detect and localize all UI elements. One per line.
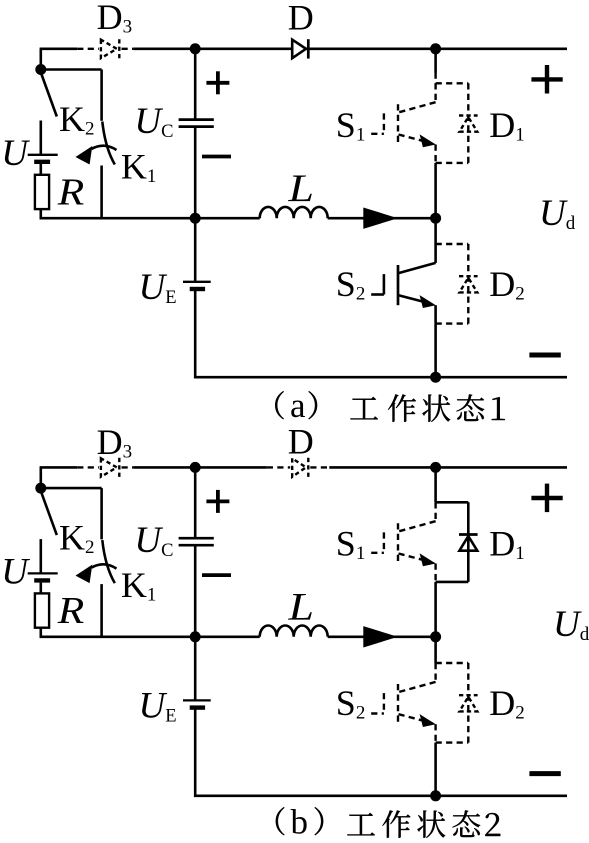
wire (b) top rail dashed lead-out of D3 — [122, 466, 134, 468]
node (b) UC bottom junction — [190, 631, 201, 642]
diode D (conducting, solid) triangle — [292, 40, 306, 59]
wire top rail dashed lead-out of D3 — [122, 48, 134, 50]
IGBT S1 (off, dashed) (a) emitter arrowhead — [420, 134, 436, 147]
(a) battery UE lower lead — [194, 291, 197, 379]
diode D3 (off, dashed) triangle — [101, 40, 117, 59]
IGBT S1 (off, dashed) (a) diode triangle — [459, 117, 477, 132]
(b) wire top-left corner drop — [39, 467, 42, 488]
terminal minus (a) — [529, 353, 560, 358]
wire top rail left segment — [40, 47, 78, 50]
wire (b) top rail left segment — [40, 466, 78, 469]
IGBT S1 (off, dashed) with conducting diode D1 (b) gate lead — [371, 552, 384, 554]
IGBT S1 (off, dashed) with conducting diode D1 (b) gate bar — [383, 532, 385, 552]
(a) wire bottom-left rail — [40, 217, 196, 220]
IGBT S2 (conducting, solid) with diode D2 (a) freewheel loop bottom wire — [436, 322, 469, 324]
IGBT S2 (off, dashed) with diode D2 (b) gate lead — [371, 712, 384, 714]
wire (a) S1 emitter to midpoint — [434, 163, 437, 218]
IGBT S2 (off, dashed) with diode D2 (b) emitter lead — [434, 724, 436, 742]
(b) polarity minus of UC — [202, 573, 231, 577]
IGBT S1 (off, dashed) (a) collector diagonal — [399, 102, 436, 112]
(b) polarity plus of UC vertical — [216, 490, 220, 513]
(b) wire to K1 branch — [41, 487, 102, 490]
terminal plus (b) horizontal — [531, 496, 562, 500]
IGBT S2 (off, dashed) with diode D2 (b) collector diagonal — [399, 682, 436, 692]
(b) battery UE short plate — [190, 705, 205, 709]
terminal plus (a) vertical — [545, 65, 549, 94]
wire (b) S2 emitter to bottom rail — [434, 743, 437, 796]
svg-text:L: L — [287, 167, 314, 210]
(a) wire K1 branch vertical — [100, 70, 103, 121]
IGBT S1 (off, dashed) with conducting diode D1 (b) freewheel loop right wire — [467, 502, 470, 582]
IGBT S1 (off, dashed) (a) emitter lead — [434, 145, 436, 163]
(a) battery U short plate — [34, 160, 50, 164]
IGBT S2 (off, dashed) with diode D2 (b) gate bar — [383, 693, 385, 713]
IGBT S2 (conducting, solid) with diode D2 (a) emitter arrowhead — [420, 295, 436, 308]
(b) battery UE long plate — [183, 699, 211, 701]
node (a) UC bottom junction — [190, 213, 201, 224]
node (b) top right collector junction — [430, 462, 441, 473]
node (a) top right collector junction — [430, 43, 441, 54]
(a) switch K1 lower contact — [100, 166, 103, 220]
(a) polarity plus of UC vertical — [216, 71, 220, 94]
IGBT S1 (off, dashed) (a) gate bar — [383, 113, 385, 133]
IGBT S1 (off, dashed) with conducting diode D1 (b) diode cathode bar — [459, 533, 478, 536]
IGBT S2 (off, dashed) with diode D2 (b) diode cathode bar — [459, 694, 478, 696]
caption (b) char tai — [452, 810, 480, 837]
wire (b) midpoint to S2 loop — [434, 637, 437, 663]
IGBT S1 (off, dashed) (a) gate lead — [371, 133, 384, 135]
(b) capacitor UC plate bottom — [179, 544, 214, 547]
(b) battery UE upper lead — [194, 637, 197, 700]
IGBT S2 (off, dashed) with diode D2 (b) freewheel loop top wire — [436, 662, 469, 664]
diode D (b) (off, dashed) triangle — [292, 458, 306, 477]
(a) wire top-left corner drop — [39, 49, 42, 70]
circuit (b) working state 2 — [1, 422, 589, 802]
IGBT S1 (off, dashed) (a) collector lead — [434, 83, 436, 102]
node (a) bottom emitter junction — [430, 372, 441, 383]
wire (b) collector stub from top node — [434, 467, 437, 502]
IGBT S2 (conducting, solid) with diode D2 (a) diode triangle — [459, 278, 477, 293]
caption (a) char tai — [456, 394, 484, 421]
wire (b) top rail right segment — [329, 466, 567, 469]
(a) switch K2 blade — [41, 74, 57, 117]
IGBT S2 (off, dashed) with diode D2 (b) emitter diagonal — [399, 714, 425, 721]
svg-text:D: D — [288, 422, 314, 462]
caption (a) digit 1 — [492, 397, 505, 420]
caption (a) — [275, 386, 505, 425]
(a) resistor R body — [35, 175, 49, 209]
IGBT S1 (off, dashed) with conducting diode D1 (b) channel bar — [397, 523, 399, 563]
node (b) midpoint junction — [430, 631, 441, 642]
(b) switch K1 lower contact — [100, 584, 103, 638]
(a) battery UE short plate — [190, 287, 205, 291]
(b) capacitor UC top lead — [194, 467, 197, 538]
IGBT S2 (conducting, solid) with diode D2 (a) diode cathode bar — [459, 275, 478, 277]
wire (a) bottom rail — [194, 376, 567, 379]
inductor L (b) left wire — [195, 635, 260, 638]
(a) switch K1 closing arrow tail — [92, 146, 117, 150]
node (a) top of UC — [190, 43, 201, 54]
IGBT S1 (off, dashed) with conducting diode D1 (b) emitter arrowhead — [420, 553, 436, 566]
IGBT S2 (off, dashed) with diode D2 (b) channel bar — [397, 684, 399, 724]
wire (b) bottom rail — [194, 794, 567, 797]
IGBT S2 (conducting, solid) with diode D2 (a) gate bar — [383, 274, 386, 294]
svg-text:D: D — [288, 0, 314, 38]
IGBT S1 (off, dashed) with conducting diode D1 (b) emitter lead — [434, 564, 436, 582]
(b) battery UE lower lead — [194, 709, 197, 797]
diode D3 (off, dashed) cathode bar — [118, 39, 120, 58]
diode D3 (b) (off, dashed) triangle — [101, 458, 117, 477]
wire (b) S1 emitter to midpoint — [434, 582, 437, 637]
wire (a) S2 emitter to bottom rail — [434, 324, 437, 378]
IGBT S1 (off, dashed) with conducting diode D1 (b) collector lead — [434, 502, 436, 521]
(b) resistor R body — [35, 593, 49, 627]
inductor L (a) right wire — [328, 217, 436, 220]
(b) node left junction — [35, 483, 46, 494]
wire (b) top rail middle segment — [133, 466, 266, 469]
caption (b) digit 2 — [485, 813, 500, 836]
IGBT S1 (off, dashed) with conducting diode D1 (b) freewheel loop top wire — [436, 501, 469, 504]
IGBT S2 (conducting, solid) with diode D2 (a) channel bar — [397, 265, 400, 305]
wire (b) top rail dashed lead-in of D3 — [77, 466, 99, 468]
(a) capacitor UC plate top — [179, 118, 214, 121]
svg-text:R: R — [57, 590, 85, 632]
terminal plus (b) vertical — [545, 484, 549, 512]
diode D3 (b) (off, dashed) cathode bar — [118, 458, 120, 477]
(a) node left junction — [35, 64, 46, 75]
(a) switch K2 contact — [39, 121, 42, 155]
caption (a) char zhuang — [422, 395, 450, 422]
wire (b) top rail dashed lead-in of D — [267, 466, 290, 468]
inductor L (b) right wire — [328, 635, 436, 638]
wire (a) midpoint to S2 collector — [434, 218, 437, 244]
caption (b) char gong — [347, 813, 375, 836]
(b) battery U short plate — [34, 578, 50, 582]
caption (b) fullwidth left paren — [276, 807, 285, 835]
IGBT S2 (conducting, solid) with diode D2 (a) collector lead — [434, 244, 437, 263]
(b) battery U lower lead — [39, 583, 42, 594]
(a) battery UE long plate — [183, 281, 211, 283]
(b) capacitor UC plate top — [179, 537, 214, 540]
circuit (a) working state 1 — [1, 0, 575, 383]
(a) battery U lower lead — [39, 164, 42, 175]
IGBT S1 (off, dashed) with conducting diode D1 (b) emitter diagonal — [399, 554, 425, 561]
(a) capacitor UC top lead — [194, 49, 197, 120]
wire (b) top rail dashed lead-out of D — [310, 466, 329, 468]
IGBT S2 (off, dashed) with diode D2 (b) freewheel loop bottom wire — [436, 741, 469, 743]
IGBT S2 (off, dashed) with diode D2 (b) diode triangle — [459, 697, 477, 712]
(b) switch K1 blade — [102, 540, 115, 583]
IGBT S1 (off, dashed) with conducting diode D1 (b) diode triangle — [459, 536, 477, 551]
caption (a) fullwidth right paren — [308, 391, 317, 419]
inductor L (a) current arrow — [363, 208, 398, 229]
wire top rail dashed lead-in of D3 — [77, 48, 99, 50]
IGBT S1 (off, dashed) (a) freewheel loop top wire — [436, 82, 469, 84]
(a) switch K1 blade — [102, 122, 115, 165]
svg-text:U: U — [1, 552, 30, 593]
svg-text:a: a — [290, 386, 306, 425]
(b) switch K2 blade — [41, 492, 57, 535]
terminal minus (b) — [529, 771, 560, 776]
(a) switch K1 closing arrowhead — [76, 146, 93, 165]
caption (a) fullwidth left paren — [275, 391, 284, 419]
wire top rail middle segment — [133, 47, 292, 50]
(b) switch K2 contact — [39, 539, 42, 573]
IGBT S2 (off, dashed) with diode D2 (b) emitter arrowhead — [420, 714, 436, 727]
caption (a) char gong — [350, 397, 378, 420]
IGBT S1 (off, dashed) (a) channel bar — [397, 104, 399, 144]
caption (b) char zuo — [382, 810, 410, 837]
IGBT S2 (conducting, solid) with diode D2 (a) freewheel loop right wire — [467, 244, 469, 324]
(b) switch K1 closing arrowhead — [76, 565, 93, 584]
IGBT S1 (off, dashed) (a) freewheel loop bottom wire — [436, 162, 469, 164]
(b) switch K1 closing arrow tail — [92, 564, 117, 568]
(b) resistor R lower lead — [39, 628, 42, 638]
(a) capacitor UC plate bottom — [179, 125, 214, 128]
node (b) top of UC — [190, 462, 201, 473]
inductor L (b) current arrow — [363, 626, 398, 647]
(b) polarity plus of UC horizontal — [206, 499, 229, 503]
wire top rail right segment — [306, 47, 567, 50]
wire (a) dashed collector approach — [434, 73, 436, 84]
node (a) midpoint junction — [430, 213, 441, 224]
svg-text:b: b — [291, 803, 309, 842]
IGBT S2 (off, dashed) with diode D2 (b) collector lead — [434, 663, 436, 682]
svg-text:R: R — [57, 171, 85, 213]
(b) capacitor UC bottom lead — [194, 545, 197, 637]
(a) capacitor UC bottom lead — [194, 127, 197, 219]
IGBT S1 (off, dashed) with conducting diode D1 (b) collector diagonal — [399, 521, 436, 531]
svg-text:U: U — [1, 133, 30, 174]
(b) battery U long plate — [28, 572, 58, 574]
IGBT S2 (conducting, solid) with diode D2 (a) freewheel loop top wire — [436, 243, 469, 245]
IGBT S2 (conducting, solid) with diode D2 (a) emitter lead — [434, 305, 437, 323]
caption (a) char zuo — [388, 394, 416, 421]
(a) resistor R lower lead — [39, 209, 42, 219]
IGBT S1 (off, dashed) with conducting diode D1 (b) freewheel loop bottom wire — [436, 581, 469, 584]
caption (b) char zhuang — [417, 811, 445, 838]
caption (b) — [276, 803, 500, 842]
IGBT S1 (off, dashed) (a) diode cathode bar — [459, 114, 478, 116]
inductor L (b) coil humps — [260, 626, 328, 637]
inductor L (a) coil humps — [260, 207, 328, 218]
IGBT S1 (off, dashed) (a) emitter diagonal — [399, 135, 425, 142]
(a) battery UE upper lead — [194, 218, 197, 281]
diode D (b) (off, dashed) cathode bar — [307, 458, 309, 477]
IGBT S2 (conducting, solid) with diode D2 (a) collector diagonal — [399, 263, 436, 273]
IGBT S2 (conducting, solid) with diode D2 (a) emitter diagonal — [399, 295, 425, 302]
(a) polarity minus of UC — [202, 155, 231, 159]
(a) polarity plus of UC horizontal — [206, 81, 229, 85]
diode D (conducting, solid) cathode bar — [307, 39, 310, 58]
IGBT S2 (off, dashed) with diode D2 (b) freewheel loop right wire — [467, 663, 469, 743]
wire (a) collector stub from top node — [434, 49, 437, 73]
IGBT S1 (off, dashed) (a) freewheel loop right wire — [467, 83, 469, 163]
terminal plus (a) horizontal — [531, 77, 562, 81]
(b) wire K1 branch vertical — [100, 488, 103, 539]
node (b) bottom emitter junction — [430, 790, 441, 801]
(a) wire to K1 branch — [41, 68, 102, 71]
(b) wire bottom-left rail — [40, 635, 196, 638]
svg-text:L: L — [287, 585, 314, 628]
(a) battery U long plate — [28, 154, 58, 156]
caption (b) fullwidth right paren — [315, 807, 324, 835]
inductor L (a) left wire — [195, 217, 260, 220]
IGBT S2 (conducting, solid) with diode D2 (a) gate lead — [371, 293, 384, 296]
